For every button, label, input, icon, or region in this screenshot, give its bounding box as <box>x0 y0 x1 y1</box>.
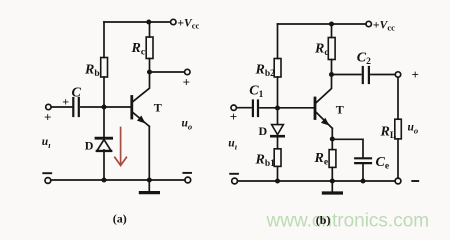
resistor Rc (a) <box>146 37 153 59</box>
svg-text:Ce: Ce <box>376 155 390 172</box>
transistor T (a) base bar <box>130 97 133 119</box>
svg-text:Rb1: Rb1 <box>255 153 276 170</box>
svg-text:RL: RL <box>380 125 397 142</box>
wire: C1 to base node (b) <box>260 107 314 109</box>
wire: base node down to diode (b) <box>277 108 279 124</box>
wire: top rail (a) <box>104 21 171 23</box>
transistor T (b) emitter with arrow <box>316 113 332 140</box>
svg-text:D: D <box>85 139 94 153</box>
terminal bottom-left with minus (a) <box>43 173 51 183</box>
transistor T (a) collector <box>133 72 150 102</box>
svg-text:uı: uı <box>42 136 51 150</box>
node: Vcc junction (a) <box>146 20 151 25</box>
terminal +Vcc (b) <box>366 21 371 26</box>
wire: base node down to diode (a) <box>103 107 105 138</box>
resistor Rb1 <box>274 149 281 167</box>
resistor Rc (b) <box>328 38 335 60</box>
capacitor C (a) <box>73 98 79 116</box>
node: diode-rail junction (a) <box>102 178 107 183</box>
svg-text:(a): (a) <box>113 212 127 226</box>
svg-text:+: + <box>62 95 69 109</box>
node: Rb1 rail junction (b) <box>275 179 280 184</box>
wire: diode to Rb1 <box>277 136 279 149</box>
wire: rail down to Rc (b) <box>331 24 333 38</box>
wire: Rc to collector node (a) <box>149 59 151 73</box>
diode D (a) <box>96 138 112 151</box>
svg-text:uo: uo <box>408 122 419 136</box>
svg-text:+: + <box>183 75 190 90</box>
wire: output terminal down to RL <box>397 77 399 119</box>
svg-text:C2: C2 <box>357 51 371 68</box>
wire: rail down to Rb (a) <box>103 22 105 58</box>
svg-text:C: C <box>72 86 82 101</box>
wire: input terminal to C1 <box>237 107 252 109</box>
wire: C to base node (a) <box>81 106 130 108</box>
red arrow current direction (a) <box>115 128 127 166</box>
node: Re rail junction (b) <box>330 179 335 184</box>
capacitor C2 <box>363 67 369 83</box>
svg-text:T: T <box>336 103 344 117</box>
svg-text:+: + <box>412 67 419 82</box>
wire: emitter node to Ce <box>332 139 363 157</box>
wire: Rb to base node (a) <box>103 77 105 107</box>
wire: Rb1 to bottom rail (b) <box>277 166 279 181</box>
diode D (b) <box>271 125 283 137</box>
wire: Re to bottom rail (b) <box>331 167 333 181</box>
node: Ce rail junction (b) <box>361 179 366 184</box>
node: base junction (a) <box>102 105 107 110</box>
svg-text:(b): (b) <box>316 213 331 227</box>
terminal output (a) <box>185 69 190 74</box>
ground (a) <box>140 180 158 193</box>
node: base junction (b) <box>275 106 280 111</box>
wire: rail down to Rb2 <box>277 24 279 59</box>
svg-text:T: T <box>154 101 162 115</box>
svg-text:+: + <box>44 110 51 125</box>
transistor T (b) collector <box>316 75 331 103</box>
svg-text:uo: uo <box>182 118 193 132</box>
terminal bottom-left with minus (b) <box>230 174 238 184</box>
transistor T (b) base bar <box>314 98 317 119</box>
wire: RL to bottom-right terminal <box>397 139 399 178</box>
ground (b) <box>323 181 341 193</box>
svg-text:+Vcc: +Vcc <box>177 15 199 30</box>
wire: top rail (b) <box>278 23 367 25</box>
resistor Rb (a) <box>101 58 108 78</box>
input terminal (b) <box>231 105 236 110</box>
input terminal (a) <box>46 104 51 109</box>
resistor RL <box>395 119 402 139</box>
wire: emitter node to Re <box>331 139 333 150</box>
wire: Rb2 to base node (b) <box>277 77 279 108</box>
svg-text:Rc: Rc <box>314 42 329 59</box>
wire: Rc to collector node (b) <box>331 60 333 75</box>
resistor Re <box>329 150 336 168</box>
node: Vcc junction (b) <box>329 22 334 27</box>
capacitor Ce <box>355 158 371 163</box>
node: emitter-rail junction (a) <box>147 178 152 183</box>
bottom rail (b) <box>238 180 396 182</box>
capacitor C1 <box>253 101 258 117</box>
terminal bottom-right with minus (a) <box>183 173 191 183</box>
resistor Rb2 <box>274 59 281 78</box>
svg-text:Re: Re <box>314 151 329 168</box>
wire: input terminal to C (a) <box>51 106 71 108</box>
terminal +Vcc (a) <box>171 19 176 24</box>
node: collector junction (a) <box>147 70 152 75</box>
svg-text:www.cntronics.com: www.cntronics.com <box>266 211 430 232</box>
transistor T (a) emitter with arrow <box>133 112 150 180</box>
wire: diode to bottom rail (a) <box>103 150 105 180</box>
svg-text:C1: C1 <box>249 84 263 101</box>
svg-text:D: D <box>259 124 268 138</box>
label minus at bottom-right (b) <box>412 180 418 182</box>
svg-text:+Vcc: +Vcc <box>373 17 395 32</box>
svg-text:+: + <box>230 109 237 124</box>
bottom rail (a) <box>51 179 185 181</box>
svg-text:Rb: Rb <box>84 63 100 80</box>
wire: rail down to Rc (a) <box>149 22 151 37</box>
wire: collector node to C2 <box>332 74 361 76</box>
wire: C2 to output terminal (b) <box>371 74 395 76</box>
svg-text:Rc: Rc <box>131 41 146 58</box>
wire: Ce to bottom rail (b) <box>362 164 364 182</box>
terminal output (b) <box>395 72 400 77</box>
wire: collector node to output terminal (a) <box>150 71 185 73</box>
svg-text:Rb2: Rb2 <box>255 63 276 80</box>
node: collector junction (b) <box>329 72 334 77</box>
terminal bottom-right (b) <box>395 178 401 184</box>
svg-text:uı: uı <box>228 138 237 152</box>
node: emitter junction (b) <box>330 137 335 142</box>
